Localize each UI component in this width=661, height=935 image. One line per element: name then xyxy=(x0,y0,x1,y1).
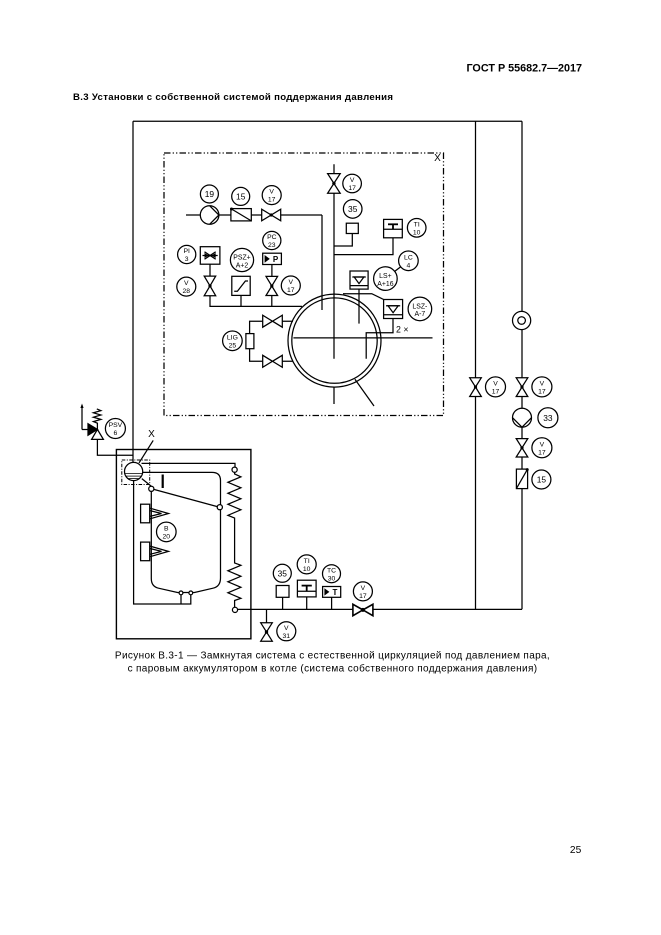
instrument bubble V 31 xyxy=(277,622,296,641)
svg-text:TC: TC xyxy=(327,567,336,574)
label I tick xyxy=(162,475,164,489)
svg-text:15: 15 xyxy=(236,191,246,201)
valve LIG lower xyxy=(263,355,283,367)
instrument bubble PSV 6 xyxy=(105,419,125,439)
svg-text:A+16: A+16 xyxy=(377,281,393,288)
pump U19 xyxy=(200,206,219,225)
svg-text:17: 17 xyxy=(268,197,276,204)
svg-text:V: V xyxy=(269,189,274,196)
wire drum bottom stub xyxy=(333,387,335,404)
valve V17 on riser xyxy=(328,174,341,194)
level switch LS+ square xyxy=(350,271,368,324)
converter T box xyxy=(323,587,341,610)
node coil bottom xyxy=(232,607,237,612)
svg-text:A+2: A+2 xyxy=(236,262,249,269)
svg-text:LSZ-: LSZ- xyxy=(412,303,427,310)
svg-text:V: V xyxy=(361,585,366,592)
converter P box xyxy=(263,253,282,264)
thermowell TI lower xyxy=(297,580,316,609)
svg-text:X: X xyxy=(434,153,441,164)
wire LSZ leader from drum xyxy=(343,294,384,300)
instrument bubble 15 right xyxy=(532,470,551,489)
svg-text:17: 17 xyxy=(492,389,500,396)
instrument bubble TI 10 lower xyxy=(297,555,316,574)
svg-text:19: 19 xyxy=(205,189,215,199)
wire V31 branch xyxy=(266,609,268,622)
wire vessel bottom left riser xyxy=(180,595,182,604)
wire stub ramp square down xyxy=(240,295,242,306)
instrument bubble 35 lower xyxy=(273,564,291,582)
svg-text:PC: PC xyxy=(267,234,277,241)
instrument bubble V17 bottom xyxy=(353,582,372,601)
svg-text:PI: PI xyxy=(183,248,190,255)
svg-text:10: 10 xyxy=(413,229,421,236)
svg-text:LS+: LS+ xyxy=(379,273,391,280)
svg-text:A-7: A-7 xyxy=(415,311,426,318)
safety valve PSV body xyxy=(88,424,103,440)
svg-text:V: V xyxy=(289,279,294,286)
svg-text:30: 30 xyxy=(328,575,336,582)
instrument bubble LIG 25 xyxy=(223,331,243,351)
instrument bubble PI 3 xyxy=(178,245,196,263)
valve V17 right pipe upper xyxy=(516,378,528,397)
svg-text:4: 4 xyxy=(407,262,411,269)
node vessel bottom right xyxy=(189,591,193,595)
svg-text:LIG: LIG xyxy=(227,334,238,341)
wire feedwater drop into drum xyxy=(321,215,323,310)
wire bottom pipe xyxy=(235,608,522,610)
svg-text:P: P xyxy=(273,255,279,264)
svg-text:17: 17 xyxy=(538,449,546,456)
svg-text:3: 3 xyxy=(185,256,189,263)
boundary dash-dot box drum xyxy=(122,460,150,485)
wire drum to coil top xyxy=(142,463,236,467)
wire second vertical pipe xyxy=(475,121,477,609)
sensor square 35 lower xyxy=(276,586,289,610)
instrument bubble B 20 xyxy=(157,522,177,542)
wire right return pipe xyxy=(521,121,523,609)
steam drum circle xyxy=(288,294,381,387)
svg-text:TI: TI xyxy=(414,221,420,228)
svg-text:V: V xyxy=(184,280,189,287)
valve V31 xyxy=(261,623,273,641)
controller ramp square xyxy=(232,276,250,295)
svg-text:V: V xyxy=(540,441,545,448)
safety valve spring xyxy=(93,409,101,430)
boiler enclosure rectangle xyxy=(116,450,251,639)
instrument bubble PC 23 xyxy=(263,231,281,249)
svg-text:28: 28 xyxy=(183,288,191,295)
heating coil zigzag xyxy=(228,472,241,607)
wire vessel water level diagonal xyxy=(154,489,218,506)
svg-text:6: 6 xyxy=(114,430,118,437)
node vessel right xyxy=(217,505,222,510)
svg-text:V: V xyxy=(350,177,355,184)
svg-text:2 ×: 2 × xyxy=(396,325,408,335)
svg-text:V: V xyxy=(493,381,498,388)
filter F15 xyxy=(230,208,251,221)
svg-text:X: X xyxy=(148,429,155,440)
svg-text:25: 25 xyxy=(570,845,582,856)
node vessel left xyxy=(149,486,154,491)
instrument bubble V17 riser xyxy=(343,174,362,193)
sensor square 35 upper xyxy=(334,223,358,246)
wire left downcomer pipe xyxy=(132,121,134,462)
burner B2 flame xyxy=(150,546,169,557)
burner B1 rectangle xyxy=(141,504,150,523)
node coil top xyxy=(232,467,237,472)
boiler drum circle X xyxy=(125,462,143,480)
wire feedwater line row1 xyxy=(186,214,322,216)
instrument bubble 35 upper xyxy=(343,200,362,219)
restrictor square R1 xyxy=(200,247,220,265)
instrument bubble LC 4 xyxy=(399,251,419,271)
valve V17 right pipe lower xyxy=(516,439,528,457)
instrument bubble V 28 xyxy=(177,277,196,296)
svg-text:ГОСТ Р 55682.7—2017: ГОСТ Р 55682.7—2017 xyxy=(466,62,582,74)
svg-text:25: 25 xyxy=(229,342,237,349)
valve V17 row1 xyxy=(262,209,281,221)
wire drum to vessel node diagonal xyxy=(142,479,152,487)
wire stub P box to valve xyxy=(271,265,273,277)
svg-text:17: 17 xyxy=(287,287,295,294)
svg-text:23: 23 xyxy=(268,242,276,249)
instrument bubble TC 30 xyxy=(323,565,341,583)
wire top steam header xyxy=(133,120,522,122)
svg-text:Рисунок В.3-1 — Замкнутая сист: Рисунок В.3-1 — Замкнутая система с есте… xyxy=(115,651,550,662)
wire LIG upper branch xyxy=(250,321,293,361)
svg-text:35: 35 xyxy=(348,204,358,214)
safety valve PSV vent arrow xyxy=(80,404,88,430)
wire stub restrictor to valve V28 xyxy=(209,264,211,276)
wire water level line xyxy=(293,337,432,339)
burner B2 rectangle xyxy=(141,542,150,561)
label X drum leader xyxy=(139,429,155,463)
valve V17 on second pipe xyxy=(470,378,482,397)
instrument bubble PSZ+ A+2 xyxy=(230,248,253,271)
svg-text:15: 15 xyxy=(537,475,547,485)
boundary dash-dot box X xyxy=(164,153,444,416)
wire stub valve V17 row3 down xyxy=(271,296,273,307)
instrument bubble V17 right upper xyxy=(532,377,552,397)
wire downcomer to vessel bottom xyxy=(134,481,191,604)
instrument bubble V17 row1 xyxy=(262,186,281,205)
wire PSV drain to downcomer xyxy=(97,439,133,455)
vent double circle on right pipe xyxy=(513,311,531,329)
instrument bubble V17 right lower xyxy=(532,438,552,458)
node vessel bottom left xyxy=(179,591,183,595)
level switch LSZ square xyxy=(366,300,402,359)
svg-text:17: 17 xyxy=(348,185,356,192)
instrument bubble LS+ A+16 xyxy=(374,267,398,291)
svg-text:PSZ+: PSZ+ xyxy=(233,255,250,262)
wire feed drop inside drum xyxy=(321,296,323,310)
pump P33 xyxy=(513,408,532,427)
filter F15 right pipe xyxy=(516,468,528,489)
instrument bubble 33 xyxy=(538,408,558,428)
instrument bubble 15 xyxy=(232,187,250,205)
wire LS+ to LC link xyxy=(395,267,401,272)
instrument bubble V17 second pipe xyxy=(486,377,506,397)
burner B1 flame xyxy=(150,508,169,519)
svg-text:с паровым аккумулятором в котл: с паровым аккумулятором в котле (система… xyxy=(128,663,538,675)
valve LIG upper xyxy=(263,315,283,327)
svg-text:35: 35 xyxy=(278,568,288,578)
svg-text:T: T xyxy=(333,588,338,597)
svg-text:20: 20 xyxy=(163,534,171,541)
svg-text:31: 31 xyxy=(283,633,291,640)
svg-text:V: V xyxy=(284,625,289,632)
instrument bubble LSZ- A-7 xyxy=(408,297,432,321)
vessel outline xyxy=(143,472,221,592)
thermowell TI upper xyxy=(334,219,402,254)
svg-text:B: B xyxy=(164,526,169,533)
wire steam riser xyxy=(333,164,335,358)
instrument bubble 19 xyxy=(200,185,218,203)
svg-text:PSV: PSV xyxy=(109,422,123,429)
instrument bubble TI 10 upper xyxy=(407,219,426,238)
wire drum diagonal stub xyxy=(355,379,374,406)
svg-text:TI: TI xyxy=(304,558,310,565)
valve V17 row3 vertical xyxy=(266,276,278,295)
svg-text:V: V xyxy=(540,381,545,388)
svg-text:33: 33 xyxy=(543,413,553,423)
svg-text:10: 10 xyxy=(303,566,311,573)
gauge glass rectangle xyxy=(246,334,254,349)
wire row3 collector to drum xyxy=(210,296,302,307)
svg-text:LC: LC xyxy=(404,254,413,261)
svg-text:17: 17 xyxy=(538,389,546,396)
svg-text:В.3 Установки с собственной си: В.3 Установки с собственной системой под… xyxy=(73,92,393,103)
valve V17 bottom pipe xyxy=(353,604,373,615)
instrument bubble V17 row3 xyxy=(281,276,300,295)
valve V28 vertical xyxy=(204,276,216,296)
svg-text:17: 17 xyxy=(359,593,367,600)
